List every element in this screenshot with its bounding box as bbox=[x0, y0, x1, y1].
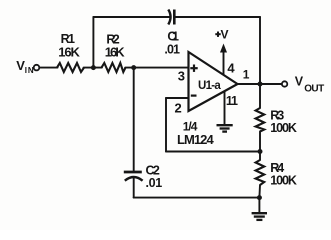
wire op-amp output pin 1 to Vout terminal bbox=[237, 83, 282, 85]
Vout terminal bbox=[282, 81, 287, 86]
wire from R2 through node B to op-amp pin 3 bbox=[125, 67, 188, 69]
value 100K for R3 bbox=[270, 121, 297, 135]
wire top rail left of C1 bbox=[93, 16, 169, 18]
op-amp U1-a bbox=[189, 52, 238, 111]
label C2 bbox=[146, 164, 160, 178]
wire between R1 and R2 through node A bbox=[84, 67, 102, 69]
wire from R3 to node C bbox=[259, 132, 261, 161]
svg-text:OUT: OUT bbox=[304, 84, 324, 95]
svg-text:16K: 16K bbox=[105, 45, 126, 60]
pin 4 label bbox=[227, 61, 235, 76]
label R2 bbox=[106, 33, 119, 47]
wire vertical from top rail down to output node bbox=[259, 17, 261, 84]
capacitor C1 bbox=[168, 10, 174, 25]
+V supply arrow on pin 4 bbox=[220, 44, 227, 75]
wire ground stub below node D bbox=[258, 198, 260, 213]
wire vertical from node A up to top feedback rail bbox=[92, 17, 94, 68]
pin 11 label bbox=[226, 94, 238, 108]
svg-text:V: V bbox=[221, 28, 229, 42]
svg-text:.01: .01 bbox=[164, 43, 180, 57]
wire from output node down to R3 bbox=[259, 84, 261, 108]
value .01 for C1 bbox=[164, 43, 180, 57]
label LM124 bbox=[177, 132, 214, 147]
label R1 bbox=[61, 32, 75, 46]
label C1 bbox=[167, 30, 179, 44]
wire from R4 to node D bbox=[258, 185, 261, 198]
ground at pin 11 bbox=[217, 125, 233, 131]
Vin terminal bbox=[34, 65, 40, 71]
resistor R1 bbox=[57, 63, 84, 72]
svg-text:2: 2 bbox=[175, 101, 182, 116]
wire from C2 down to bottom rail bbox=[133, 178, 135, 198]
node A junction dot bbox=[91, 65, 96, 70]
label +V bbox=[215, 28, 228, 42]
wire bottom rail from C2 branch to node D bbox=[134, 197, 260, 199]
capacitor C2 bbox=[124, 172, 143, 181]
label R3 bbox=[270, 109, 284, 123]
svg-text:C1: C1 bbox=[167, 30, 179, 44]
pin 1 label bbox=[243, 68, 250, 82]
label R4 bbox=[270, 161, 284, 175]
pin 2 label bbox=[175, 101, 182, 116]
node D junction dot bbox=[257, 195, 262, 200]
svg-text:16K: 16K bbox=[58, 45, 80, 60]
value 16K for R1 bbox=[58, 45, 80, 60]
value 16K for R2 bbox=[105, 45, 126, 60]
svg-text:4: 4 bbox=[227, 61, 235, 76]
node B junction dot bbox=[131, 65, 136, 70]
node C junction dot bbox=[258, 149, 263, 154]
wire op-amp pin 2 stub bbox=[166, 97, 189, 99]
svg-text:IN: IN bbox=[25, 66, 34, 75]
wire op-amp pin 11 down to ground bbox=[224, 91, 226, 125]
resistor R4 bbox=[256, 160, 265, 185]
svg-text:11: 11 bbox=[226, 94, 238, 108]
svg-text:3: 3 bbox=[178, 69, 185, 84]
svg-text:V: V bbox=[295, 75, 304, 89]
output node junction dot bbox=[258, 82, 263, 87]
wire feedback horizontal to node C bbox=[166, 151, 260, 153]
label Vout bbox=[295, 75, 324, 95]
resistor R2 bbox=[102, 63, 126, 72]
wire from node B down to C2 bbox=[133, 68, 135, 171]
value 100K for R4 bbox=[270, 174, 297, 188]
ground at node D bbox=[252, 213, 267, 220]
svg-text:100K: 100K bbox=[270, 121, 297, 135]
wire input from Vin terminal to R1 bbox=[40, 67, 58, 69]
label 1/4 bbox=[183, 120, 198, 134]
wire feedback vertical from pin 2 down bbox=[165, 98, 167, 152]
svg-text:U1-a: U1-a bbox=[198, 80, 221, 92]
wire top rail right of C1 bbox=[175, 16, 261, 18]
svg-text:1: 1 bbox=[243, 68, 250, 82]
svg-text:100K: 100K bbox=[270, 174, 297, 188]
svg-text:.01: .01 bbox=[146, 176, 163, 190]
value .01 for C2 bbox=[146, 176, 163, 190]
svg-text:LM124: LM124 bbox=[177, 132, 214, 147]
pin 3 label bbox=[178, 69, 185, 84]
resistor R3 bbox=[256, 108, 265, 132]
label Vin bbox=[16, 58, 34, 75]
